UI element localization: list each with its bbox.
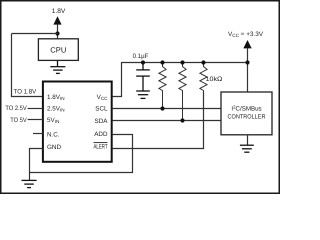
I2C/SMBus controller box xyxy=(221,92,272,135)
svg-text:5VIN: 5VIN xyxy=(47,117,59,124)
svg-text:1.8VIN: 1.8VIN xyxy=(47,94,65,101)
wire ADD to ground net xyxy=(29,135,133,173)
node junction dot xyxy=(55,31,59,35)
1.8V supply arrow xyxy=(53,16,61,24)
svg-text:VCC = +3.3V: VCC = +3.3V xyxy=(228,31,264,38)
svg-text:SDA: SDA xyxy=(95,118,109,125)
svg-text:GND: GND xyxy=(47,144,61,151)
svg-text:1.8V: 1.8V xyxy=(52,8,66,15)
wire SCL to controller xyxy=(112,108,221,110)
resistor R3 pull-up ALERT xyxy=(200,63,207,93)
junction dot R3 top xyxy=(201,60,205,64)
svg-text:ADD: ADD xyxy=(94,131,108,138)
svg-text:N.C.: N.C. xyxy=(47,131,60,138)
svg-text:2.5VIN: 2.5VIN xyxy=(47,105,65,112)
svg-text:10kΩ: 10kΩ xyxy=(206,76,223,83)
svg-text:ALERT: ALERT xyxy=(94,144,108,151)
wire N.C. stub xyxy=(33,133,43,135)
svg-text:CPU: CPU xyxy=(50,45,66,54)
resistor R2 pull-up SDA xyxy=(179,63,186,121)
wire TO 5V stub xyxy=(28,119,43,121)
ground under controller xyxy=(240,145,254,152)
ground left xyxy=(22,180,37,187)
wire arrow to CPU xyxy=(57,24,59,39)
ground under capacitor xyxy=(136,91,150,98)
wire VCC pin to rail xyxy=(112,62,121,97)
svg-text:VCC: VCC xyxy=(97,94,109,101)
CPU box xyxy=(38,39,78,61)
junction dot R2 top xyxy=(180,60,184,64)
wire node to left xyxy=(12,33,58,35)
junction dot cap xyxy=(141,60,145,64)
IC U1 box xyxy=(43,82,112,162)
junction dot R2 SDA xyxy=(180,118,184,122)
wire TO 2.5V stub xyxy=(28,108,43,110)
svg-text:CONTROLLER: CONTROLLER xyxy=(228,113,266,120)
wire SDA to controller xyxy=(112,120,221,122)
svg-text:TO 5V: TO 5V xyxy=(10,117,27,124)
svg-text:0.1µF: 0.1µF xyxy=(133,53,149,60)
wire GND pin to ground xyxy=(30,149,43,181)
svg-text:TO 2.5V: TO 2.5V xyxy=(5,105,27,112)
junction dot R1 top xyxy=(160,60,164,64)
wire ALERT to pull-up R3 xyxy=(112,92,203,149)
junction dot VCC rail xyxy=(245,60,249,64)
VCC rail wire xyxy=(122,62,248,64)
capacitor C1 xyxy=(136,63,150,92)
junction dot R1 SCL xyxy=(160,106,164,110)
svg-text:I2C/SMBus: I2C/SMBus xyxy=(231,105,261,113)
wire VCC arrow to controller xyxy=(247,48,249,92)
svg-text:SCL: SCL xyxy=(95,105,108,112)
wire controller to ground xyxy=(247,135,249,145)
svg-text:TO 1.8V: TO 1.8V xyxy=(14,88,37,95)
ground under CPU xyxy=(50,60,65,73)
VCC supply arrow xyxy=(243,40,251,48)
wire down to TO 1.8V xyxy=(12,34,43,97)
resistor R1 pull-up SCL xyxy=(159,63,166,109)
